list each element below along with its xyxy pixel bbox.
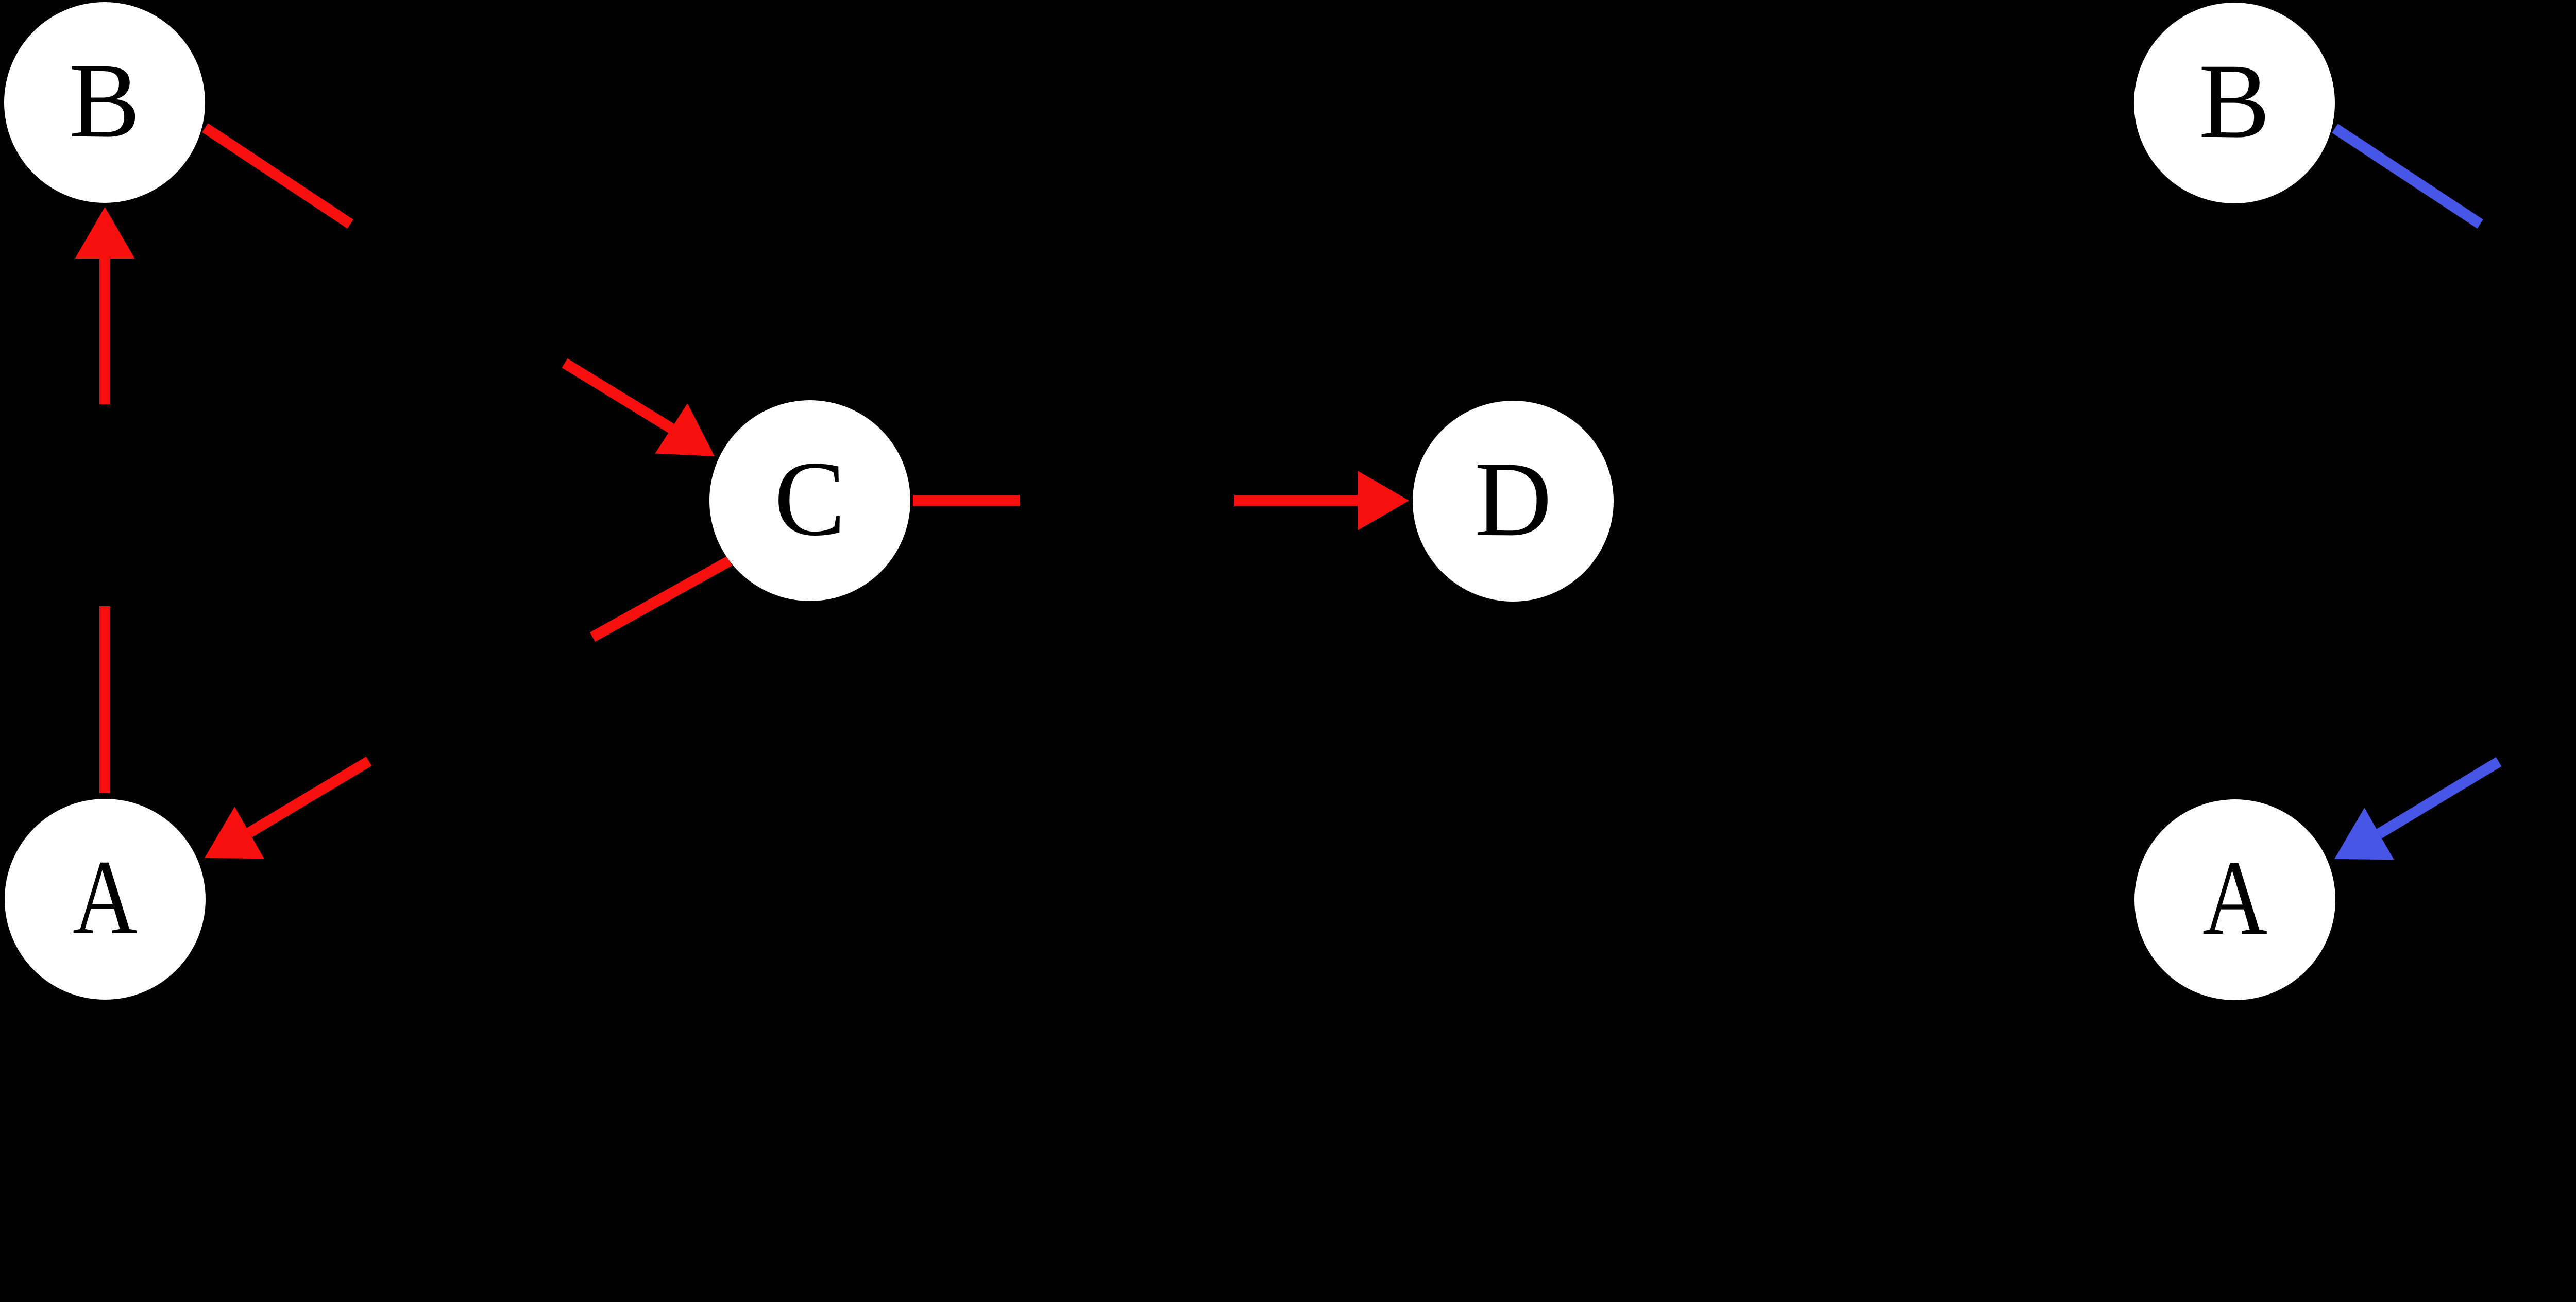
svg-text:C: C	[774, 439, 846, 558]
svg-text:B: B	[69, 41, 141, 160]
svg-text:D: D	[1475, 440, 1552, 558]
svg-text:B: B	[2199, 42, 2270, 160]
svg-text:A: A	[73, 838, 138, 956]
svg-text:A: A	[2202, 838, 2267, 957]
